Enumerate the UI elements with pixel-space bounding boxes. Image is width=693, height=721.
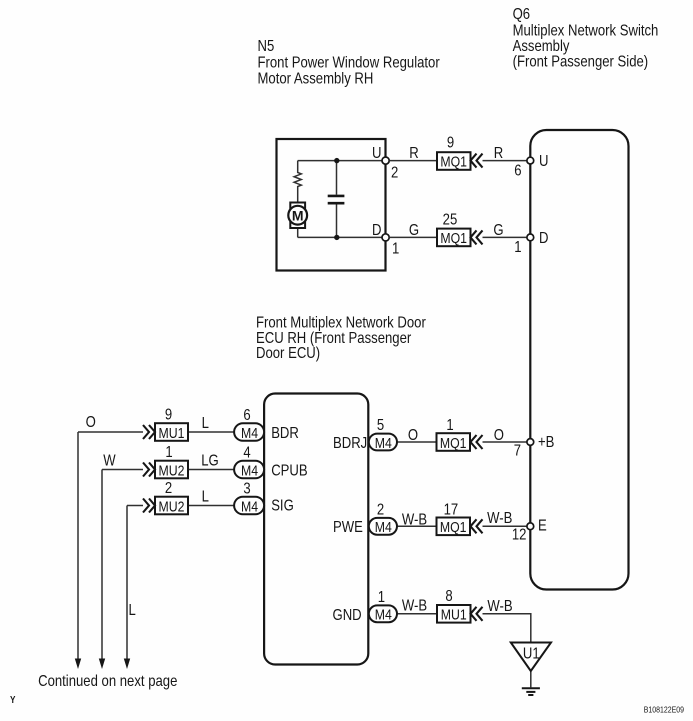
svg-text:3: 3 bbox=[243, 480, 250, 497]
svg-text:25: 25 bbox=[443, 211, 458, 228]
svg-text:17: 17 bbox=[444, 501, 459, 518]
svg-text:LG: LG bbox=[201, 452, 219, 469]
svg-text:M4: M4 bbox=[375, 606, 392, 622]
svg-text:1: 1 bbox=[378, 589, 385, 606]
svg-text:5: 5 bbox=[377, 417, 384, 434]
svg-text:9: 9 bbox=[165, 406, 172, 423]
svg-text:Door ECU): Door ECU) bbox=[256, 345, 320, 362]
svg-text:O: O bbox=[494, 427, 504, 444]
svg-text:1: 1 bbox=[514, 239, 521, 256]
svg-text:M4: M4 bbox=[241, 498, 258, 514]
svg-text:MU1: MU1 bbox=[159, 425, 185, 441]
svg-text:W-B: W-B bbox=[487, 510, 512, 527]
svg-text:2: 2 bbox=[377, 501, 384, 518]
svg-text:Motor Assembly RH: Motor Assembly RH bbox=[257, 70, 373, 87]
svg-text:4: 4 bbox=[243, 444, 250, 461]
svg-text:M4: M4 bbox=[375, 519, 392, 535]
svg-text:Continued on next page: Continued on next page bbox=[38, 673, 177, 690]
svg-text:D: D bbox=[539, 230, 548, 247]
svg-text:W-B: W-B bbox=[402, 511, 427, 528]
svg-text:1: 1 bbox=[446, 417, 453, 434]
svg-text:BDRJ: BDRJ bbox=[333, 435, 367, 452]
svg-text:7: 7 bbox=[514, 442, 521, 459]
svg-text:GND: GND bbox=[333, 607, 362, 624]
svg-text:W-B: W-B bbox=[402, 598, 427, 615]
svg-text:U1: U1 bbox=[523, 645, 540, 662]
svg-text:PWE: PWE bbox=[333, 519, 363, 536]
svg-text:O: O bbox=[86, 414, 96, 431]
svg-text:B108122E09: B108122E09 bbox=[644, 705, 684, 715]
svg-text:M4: M4 bbox=[241, 425, 258, 441]
svg-text:Y: Y bbox=[10, 694, 15, 705]
svg-text:Q6: Q6 bbox=[513, 6, 531, 23]
svg-text:Front Power Window Regulator: Front Power Window Regulator bbox=[257, 54, 439, 71]
svg-text:M: M bbox=[292, 207, 304, 223]
svg-text:MQ1: MQ1 bbox=[440, 230, 467, 246]
svg-text:CPUB: CPUB bbox=[271, 462, 307, 479]
svg-text:MQ1: MQ1 bbox=[440, 153, 467, 169]
svg-text:6: 6 bbox=[243, 407, 250, 424]
svg-text:(Front Passenger Side): (Front Passenger Side) bbox=[513, 53, 649, 70]
svg-text:MQ1: MQ1 bbox=[440, 519, 467, 535]
svg-text:D: D bbox=[372, 222, 381, 239]
svg-text:R: R bbox=[494, 145, 503, 162]
svg-text:MQ1: MQ1 bbox=[440, 435, 467, 451]
svg-text:L: L bbox=[129, 602, 136, 619]
svg-text:6: 6 bbox=[514, 162, 521, 179]
svg-text:L: L bbox=[202, 415, 209, 432]
svg-text:G: G bbox=[493, 222, 503, 239]
svg-text:SIG: SIG bbox=[271, 497, 294, 514]
svg-text:BDR: BDR bbox=[271, 425, 299, 442]
svg-text:M4: M4 bbox=[375, 435, 392, 451]
svg-text:W: W bbox=[103, 452, 116, 469]
svg-text:O: O bbox=[408, 427, 418, 444]
svg-text:N5: N5 bbox=[257, 38, 274, 55]
svg-text:R: R bbox=[409, 145, 418, 162]
svg-text:12: 12 bbox=[512, 526, 527, 543]
svg-text:G: G bbox=[409, 222, 419, 239]
svg-text:MU1: MU1 bbox=[441, 606, 467, 622]
svg-text:1: 1 bbox=[392, 240, 399, 257]
svg-text:+B: +B bbox=[538, 434, 554, 451]
svg-text:1: 1 bbox=[165, 444, 172, 461]
svg-text:M4: M4 bbox=[241, 462, 258, 478]
svg-text:L: L bbox=[202, 488, 209, 505]
svg-text:W-B: W-B bbox=[487, 598, 512, 615]
svg-text:MU2: MU2 bbox=[159, 498, 185, 514]
svg-text:MU2: MU2 bbox=[159, 462, 185, 478]
svg-text:8: 8 bbox=[445, 588, 452, 605]
svg-text:U: U bbox=[539, 153, 548, 170]
svg-text:E: E bbox=[538, 517, 547, 534]
svg-text:2: 2 bbox=[165, 480, 172, 497]
svg-text:9: 9 bbox=[447, 134, 454, 151]
svg-text:U: U bbox=[372, 145, 381, 162]
svg-text:2: 2 bbox=[391, 164, 398, 181]
